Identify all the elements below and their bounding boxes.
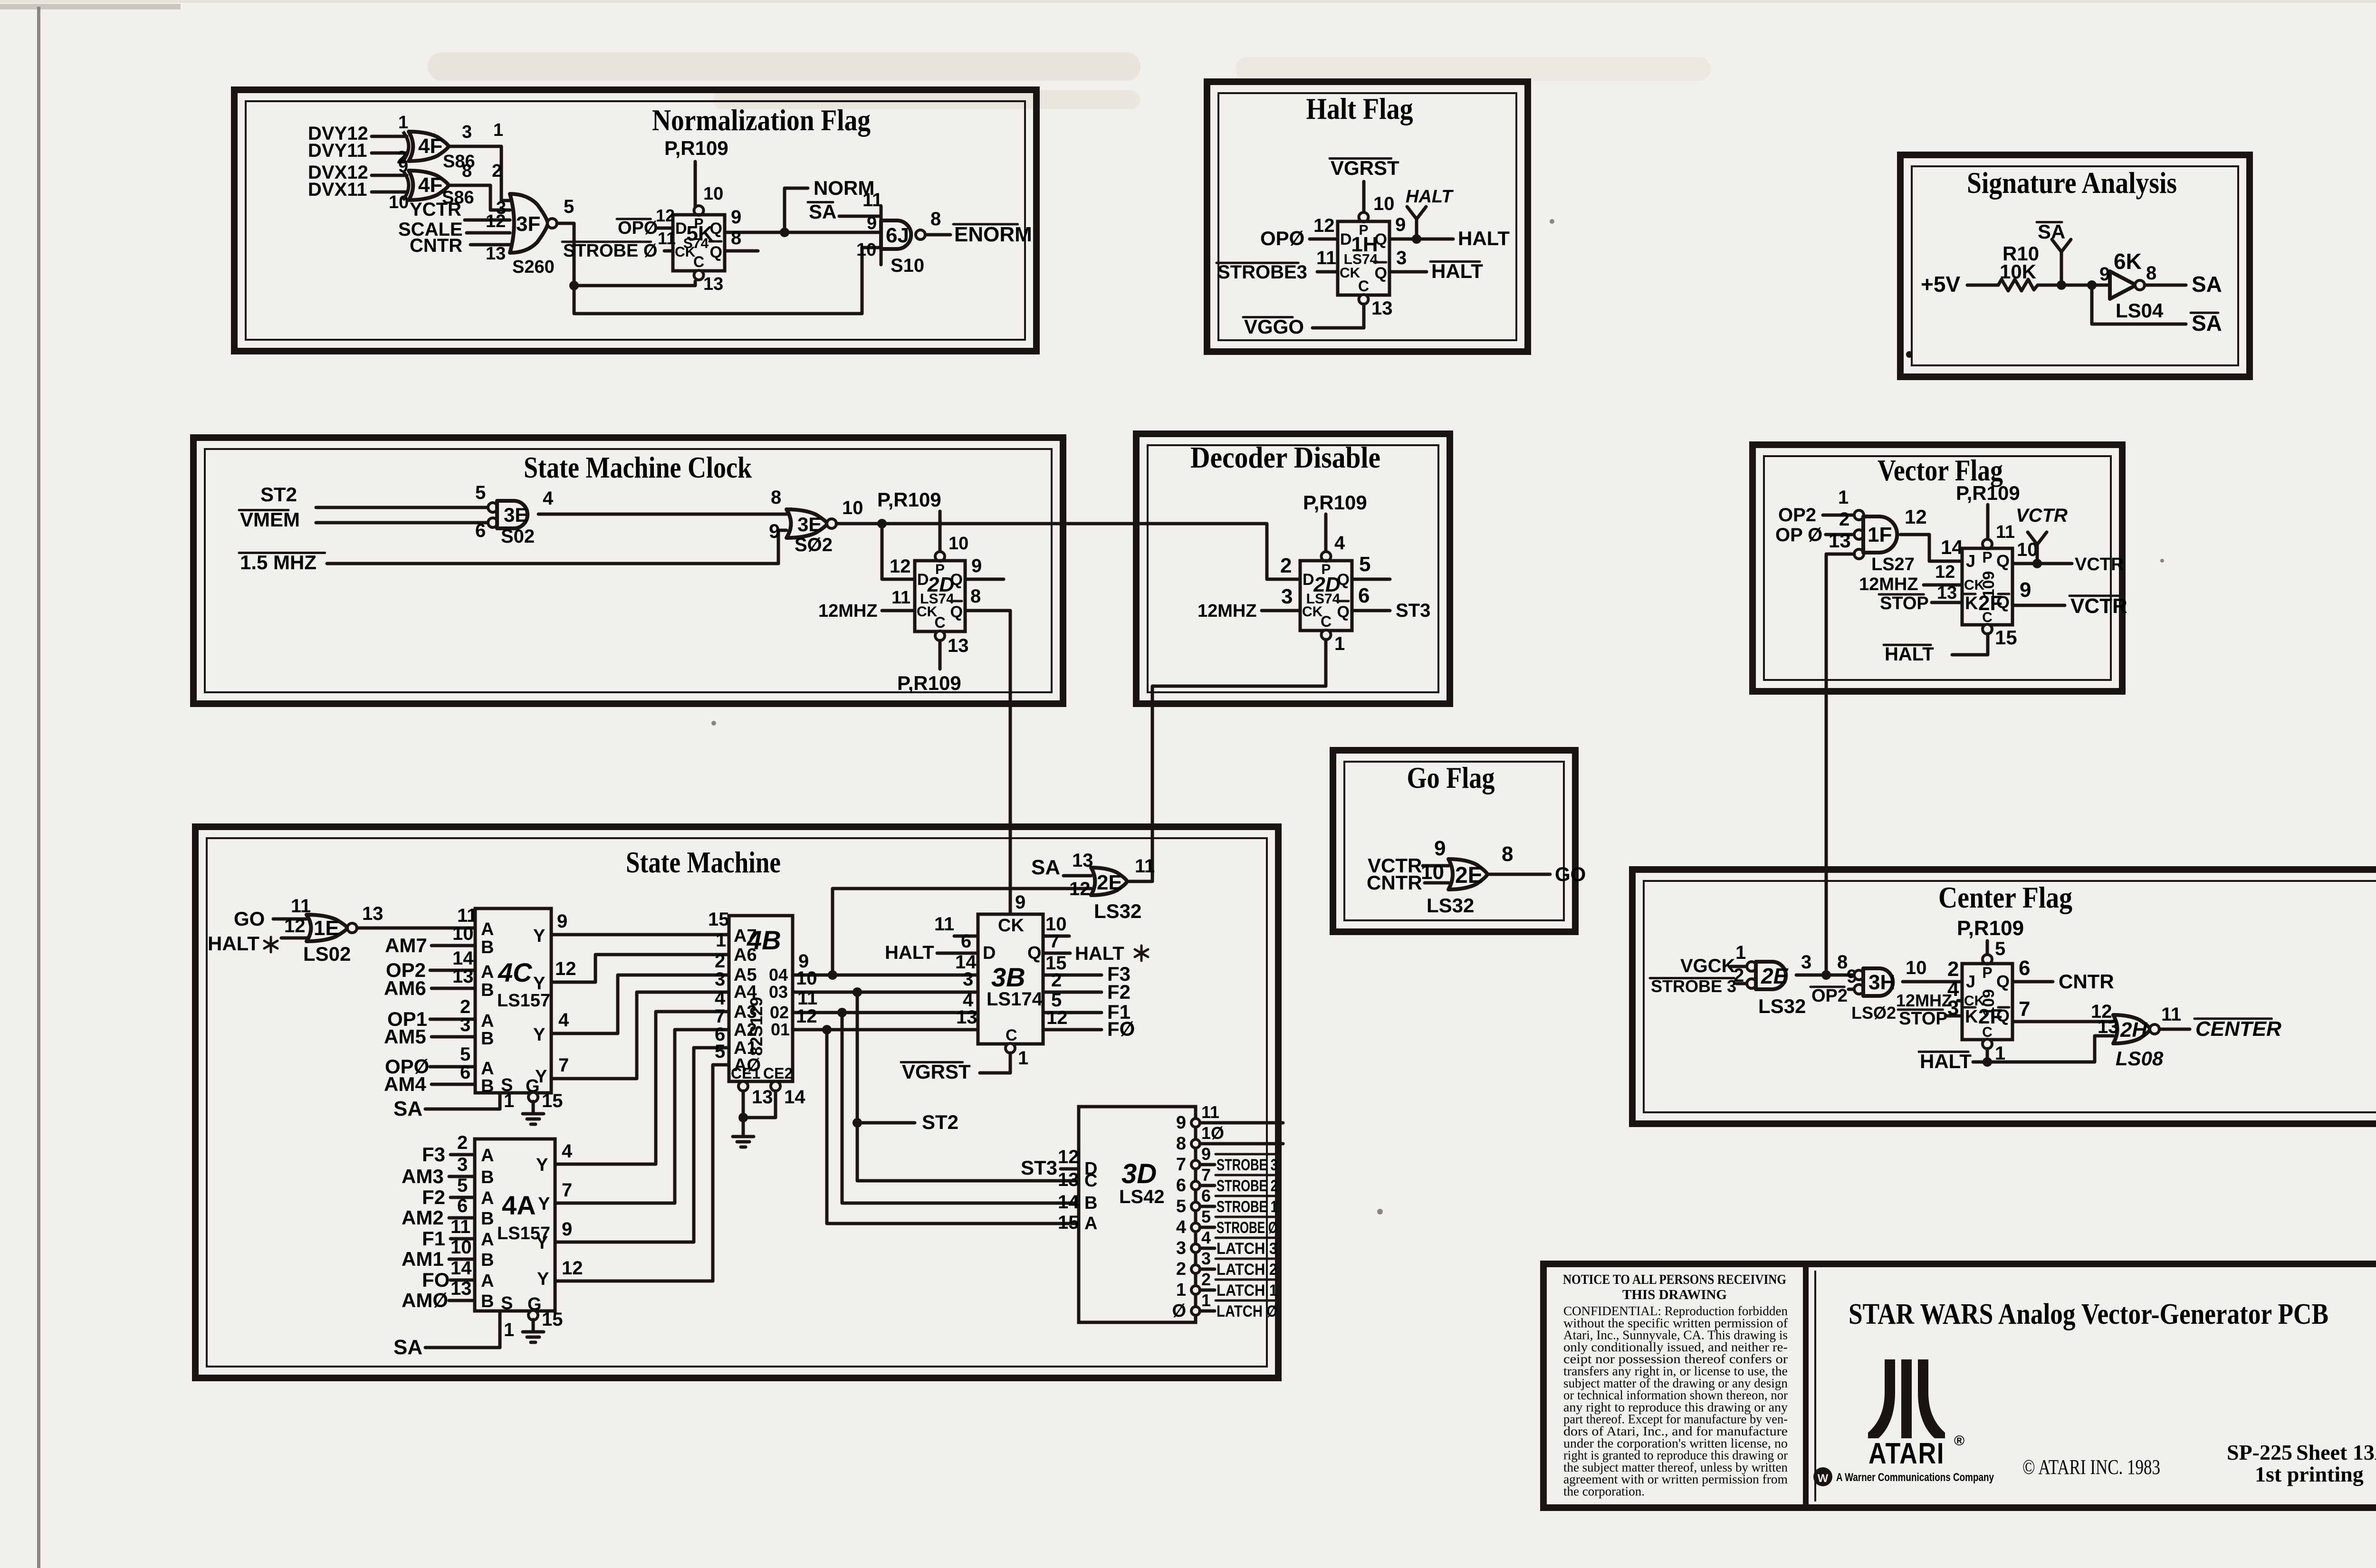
svg-text:3: 3	[457, 1154, 468, 1175]
wire CNTR to 3F pin 13	[470, 243, 510, 247]
wire 3B pin 2 to F2	[1043, 991, 1102, 994]
svg-text:4A: 4A	[502, 1190, 536, 1220]
wire 2F Q pin 10 to VCTR	[2012, 562, 2072, 565]
svg-text:HALT: HALT	[1885, 644, 1934, 665]
svg-text:7: 7	[562, 1180, 572, 1201]
svg-text:F3: F3	[422, 1143, 445, 1166]
svg-text:3: 3	[1801, 952, 1811, 973]
svg-text:12MHZ: 12MHZ	[1896, 991, 1952, 1010]
svg-text:1: 1	[504, 1319, 514, 1340]
wire 2F clear from HALT	[1986, 1049, 1989, 1062]
svg-text:12: 12	[562, 1258, 583, 1279]
wire 3B pin 5 to F1	[1043, 1011, 1102, 1014]
svg-text:1.5 MHZ: 1.5 MHZ	[240, 551, 316, 574]
wire HALT to junction	[1973, 1061, 1987, 1064]
wire 2D clear pin 1 down to State Machine 2E output	[1152, 640, 1326, 880]
State Machine section box	[195, 827, 1278, 1378]
wire VCTR to 2E pin 9	[1423, 864, 1448, 868]
svg-text:Center Flag: Center Flag	[1938, 880, 2072, 914]
wire GO to 1E pin 11	[273, 918, 307, 921]
svg-text:OPØ: OPØ	[1260, 227, 1304, 249]
stray mark	[1906, 351, 1913, 358]
svg-text:11: 11	[1996, 522, 2015, 542]
wire ST3 to 3D D pin 12	[1061, 1167, 1079, 1171]
svg-text:SA: SA	[2038, 220, 2065, 243]
svg-text:109: 109	[1980, 571, 1998, 598]
svg-text:13: 13	[1829, 529, 1851, 552]
svg-text:9: 9	[867, 213, 877, 233]
Warner logo	[1813, 1467, 1832, 1486]
wire SA to 6J pin 11	[839, 215, 881, 218]
wire junction to 5K C pin 13	[574, 281, 695, 286]
svg-text:CNTR: CNTR	[2059, 970, 2114, 993]
wire 1E out pin 13 to 4C A pin 11	[357, 927, 475, 930]
wire SCALE to 3F pin 12	[467, 231, 510, 235]
svg-text:8: 8	[731, 228, 741, 249]
svg-text:VCTR: VCTR	[2075, 555, 2124, 574]
wire F3 to 4A pin 2	[450, 1153, 475, 1157]
svg-text:2E: 2E	[1761, 964, 1789, 988]
svg-text:C: C	[693, 253, 704, 270]
svg-text:7: 7	[1176, 1155, 1186, 1175]
wire O2 junction down to 3D B pin 14	[842, 1013, 1079, 1203]
wire 3H out pin 10 to 2F J pin 2	[1903, 980, 1962, 984]
svg-text:F2: F2	[1107, 981, 1131, 1003]
wire 12MHZ to CK pin 3	[1262, 609, 1300, 612]
wire 4C Y pin 7 to 4B A4 pin 3	[551, 992, 729, 1079]
svg-text:STOP: STOP	[1899, 1009, 1948, 1029]
xor gate 4F (S86) upper	[403, 132, 409, 161]
svg-text:1: 1	[504, 1090, 514, 1111]
wire CE2 to CE1 tie	[743, 1091, 776, 1118]
wire YCTR to 3F pin 3	[465, 219, 510, 222]
svg-text:6: 6	[1201, 1186, 1211, 1205]
and gate 2H (LS08)	[2113, 1015, 2150, 1043]
svg-text:04: 04	[769, 965, 788, 985]
svg-text:2: 2	[1280, 554, 1292, 577]
svg-text:AM7: AM7	[385, 934, 427, 956]
svg-text:4: 4	[1334, 533, 1345, 554]
svg-text:State Machine Clock: State Machine Clock	[524, 450, 752, 484]
svg-text:9: 9	[2020, 578, 2031, 602]
inverter 6K (LS04)	[2110, 271, 2136, 299]
svg-text:S02: S02	[501, 526, 535, 547]
nor gate 3E (S02) second	[786, 509, 827, 538]
svg-text:3E: 3E	[797, 513, 822, 535]
svg-text:1: 1	[1334, 633, 1345, 654]
wire 3B pin 15 to F3	[1043, 974, 1102, 977]
svg-text:P,R109: P,R109	[897, 672, 961, 694]
wire F2 to 4A pin 5	[450, 1196, 475, 1199]
svg-text:P: P	[1982, 964, 1992, 981]
svg-text:1: 1	[716, 930, 726, 951]
svg-text:10: 10	[1421, 860, 1444, 884]
svg-text:C: C	[1006, 1026, 1017, 1044]
svg-text:6: 6	[457, 1195, 468, 1216]
svg-text:4F: 4F	[418, 134, 442, 158]
junction NORM tap	[780, 228, 789, 237]
wire 2E out pin 8 to GO	[1488, 873, 1550, 876]
svg-text:GO: GO	[1555, 863, 1586, 885]
svg-text:1st printing: 1st printing	[2255, 1462, 2364, 1486]
nor gate 1E (LS02)	[307, 915, 347, 941]
svg-text:6: 6	[1176, 1176, 1186, 1195]
svg-text:8: 8	[1837, 952, 1848, 973]
svg-text:3: 3	[1201, 1249, 1211, 1268]
svg-text:12: 12	[1058, 1147, 1079, 1167]
svg-text:Q: Q	[710, 243, 722, 261]
svg-text:Signature Analysis: Signature Analysis	[1967, 166, 2177, 200]
svg-text:3E: 3E	[504, 504, 528, 526]
wire CNTR to 2E pin 10	[1425, 881, 1448, 885]
SA bar signal flag	[2060, 252, 2063, 285]
svg-text:3: 3	[963, 969, 973, 990]
svg-text:®: ®	[1954, 1433, 1964, 1449]
wire STROBE3 to 1H pin 11	[1317, 270, 1338, 274]
prom 4B (82S129)	[729, 916, 793, 1081]
svg-text:7: 7	[1049, 931, 1060, 952]
svg-text:12: 12	[890, 556, 911, 577]
svg-text:1: 1	[1735, 942, 1746, 963]
wire AM1 to 4A pin 10	[449, 1258, 475, 1261]
wire 12MHZ to 2F pin 12	[1924, 583, 1962, 587]
wire 3E pin 4 to 3E pin 8	[538, 513, 786, 516]
svg-text:SP-225: SP-225	[2227, 1440, 2292, 1464]
svg-text:J: J	[1966, 551, 1975, 571]
svg-text:ST3: ST3	[1021, 1157, 1057, 1179]
svg-text:CENTER: CENTER	[2195, 1017, 2281, 1041]
register 3B (LS174)	[978, 914, 1043, 1044]
svg-text:Sheet 13A: Sheet 13A	[2296, 1440, 2376, 1464]
svg-text:OP2: OP2	[1811, 986, 1848, 1006]
svg-text:B: B	[1084, 1193, 1097, 1213]
HALT signal flag symbol	[1415, 219, 1418, 239]
svg-text:Q: Q	[1996, 551, 2010, 571]
svg-text:12: 12	[1046, 1007, 1068, 1028]
wire DVX11 to 4F pin 10	[372, 191, 407, 194]
wire SA to 4A S pin 1	[425, 1311, 500, 1348]
svg-text:J: J	[1966, 972, 1975, 991]
svg-text:AM4: AM4	[384, 1073, 426, 1095]
svg-text:S10: S10	[891, 255, 924, 276]
wire 1H Q pin 9 to HALT	[1389, 238, 1453, 241]
svg-text:DVX11: DVX11	[308, 179, 367, 200]
svg-text:7: 7	[558, 1055, 569, 1076]
svg-text:10: 10	[796, 968, 817, 989]
svg-text:8: 8	[2146, 263, 2156, 284]
junction SA flag tap	[2057, 280, 2066, 290]
flip-flop 5K (S74)	[694, 206, 704, 215]
wire 2H out pin 11 to CENTER	[2159, 1028, 2190, 1031]
wire CE1 to ground	[742, 1091, 745, 1124]
wire 12MHZ to 2D pin 11	[882, 609, 915, 612]
svg-text:CE2: CE2	[763, 1065, 793, 1082]
3B stub pin 10	[1043, 935, 1069, 938]
svg-text:12MHZ: 12MHZ	[818, 601, 878, 621]
svg-text:1Ø: 1Ø	[1201, 1123, 1224, 1143]
svg-text:Q: Q	[950, 603, 963, 621]
svg-text:11: 11	[1316, 248, 1336, 268]
svg-text:10: 10	[703, 184, 723, 204]
junction vector flag riser join	[1821, 970, 1831, 980]
svg-text:State Machine: State Machine	[626, 845, 781, 879]
svg-text:3: 3	[715, 969, 725, 990]
svg-text:AMØ: AMØ	[402, 1289, 448, 1311]
svg-text:15: 15	[708, 909, 729, 930]
svg-text:Y: Y	[533, 926, 545, 946]
Go Flag section box	[1333, 750, 1575, 932]
svg-text:S: S	[501, 1293, 513, 1313]
4C G enable bubble and pin 15	[528, 1092, 538, 1102]
wire 1F pin 13 riser down to Center Flag	[1826, 554, 1854, 975]
svg-text:5: 5	[1176, 1196, 1186, 1216]
multiplexer 4A (LS157)	[475, 1139, 555, 1311]
svg-text:3: 3	[1396, 248, 1407, 268]
svg-text:Decoder Disable: Decoder Disable	[1190, 440, 1380, 474]
multiplexer 4C (LS157)	[475, 908, 551, 1093]
nand gate 2E (LS32) center	[1747, 962, 1756, 971]
Halt Flag section box	[1207, 82, 1528, 352]
svg-text:9: 9	[1015, 892, 1025, 913]
wire +5V to R10	[1967, 284, 1998, 287]
svg-text:Q: Q	[1996, 972, 2010, 991]
svg-text:15: 15	[1058, 1212, 1079, 1233]
wire P,R109 to 2F preset pin 5	[1986, 941, 1989, 955]
svg-text:DVY11: DVY11	[308, 140, 367, 161]
svg-text:03: 03	[769, 982, 788, 1002]
svg-text:2: 2	[492, 161, 502, 181]
svg-text:11: 11	[934, 914, 954, 935]
svg-text:9: 9	[731, 207, 741, 228]
wire P,R109 to 5K preset	[694, 162, 697, 206]
svg-text:2E: 2E	[1097, 871, 1122, 894]
svg-text:LS42: LS42	[1119, 1186, 1165, 1207]
svg-text:A7: A7	[734, 926, 757, 946]
wire DVY11 to 4F pin 2	[372, 152, 407, 155]
svg-text:VCTR: VCTR	[2016, 505, 2068, 526]
svg-text:2H: 2H	[2120, 1018, 2147, 1042]
VCTR signal flag	[2036, 545, 2039, 564]
svg-text:LS174: LS174	[987, 989, 1043, 1010]
wire VGRST to 1H preset	[1362, 182, 1366, 213]
wire OP2 to 1F pin 1	[1823, 514, 1854, 517]
svg-text:13: 13	[2098, 1016, 2119, 1037]
wire ST2 to 3E pin 5	[316, 506, 489, 509]
svg-text:8: 8	[970, 586, 981, 607]
svg-text:A: A	[481, 1059, 494, 1079]
svg-text:B: B	[481, 937, 494, 957]
svg-text:A: A	[1084, 1214, 1097, 1233]
4B CE1 bubble pin 13	[738, 1081, 748, 1091]
svg-text:15: 15	[1995, 626, 2017, 649]
svg-text:5: 5	[715, 1041, 725, 1062]
wire O1 junction down to 3D A pin 15	[827, 1030, 1079, 1224]
svg-text:HALT: HALT	[208, 932, 259, 955]
wire 4F lower out pin 8 to 3F pin 2	[450, 185, 510, 210]
wire 5K Qbar pin 8 stub	[725, 249, 758, 253]
svg-text:13: 13	[956, 1007, 977, 1028]
svg-text:Q: Q	[1027, 943, 1042, 963]
svg-text:A: A	[481, 1271, 494, 1291]
svg-text:A: A	[481, 1146, 494, 1166]
svg-text:LSØ2: LSØ2	[1851, 1003, 1896, 1023]
wire bottom rail to 6J pin 10	[574, 248, 881, 314]
svg-text:01: 01	[771, 1020, 790, 1039]
svg-text:11: 11	[658, 229, 676, 248]
svg-text:ATARI: ATARI	[1868, 1437, 1945, 1470]
svg-text:3D: 3D	[1121, 1158, 1157, 1189]
wire 6J out pin 8 to ENORM	[925, 233, 950, 237]
svg-text:GO: GO	[234, 908, 265, 930]
svg-text:4: 4	[562, 1141, 573, 1162]
svg-text:OPØ: OPØ	[618, 218, 658, 238]
svg-text:9: 9	[557, 911, 567, 932]
junction feedback tap	[2087, 280, 2097, 290]
svg-text:10K: 10K	[2000, 260, 2036, 283]
svg-text:10: 10	[948, 534, 968, 554]
nand gate 1F (LS27)	[1854, 510, 1864, 520]
svg-text:ST2: ST2	[922, 1111, 958, 1133]
svg-text:SA: SA	[1031, 856, 1060, 879]
svg-text:11: 11	[1201, 1102, 1219, 1122]
svg-text:D: D	[1340, 230, 1352, 249]
svg-text:+5V: +5V	[1921, 272, 1960, 296]
junction O1 riser	[822, 1025, 832, 1034]
wire STOP to 2F K pin 3	[1945, 1014, 1962, 1018]
wire STOP to 2F pin 13	[1932, 601, 1962, 604]
svg-text:12: 12	[1905, 506, 1927, 528]
svg-text:AM5: AM5	[384, 1025, 426, 1048]
svg-text:THIS DRAWING: THIS DRAWING	[1622, 1287, 1727, 1302]
svg-text:Y: Y	[536, 1155, 548, 1175]
wire 2F Qbar pin 7 to 2H pin 12	[2012, 1020, 2113, 1023]
svg-text:ST2: ST2	[260, 483, 297, 506]
4B CE2 bubble pin 14	[771, 1081, 780, 1091]
svg-text:B: B	[481, 1167, 494, 1187]
svg-text:4: 4	[558, 1010, 569, 1031]
svg-text:S260: S260	[512, 257, 555, 277]
svg-text:OP2: OP2	[1778, 505, 1816, 526]
svg-text:1E: 1E	[314, 917, 339, 940]
svg-text:B: B	[481, 1076, 494, 1096]
svg-text:LATCH Ø: LATCH Ø	[1217, 1302, 1277, 1320]
svg-text:3B: 3B	[991, 962, 1025, 992]
svg-text:Y: Y	[533, 1025, 545, 1045]
wire O3 junction down to 3D C pin 13	[857, 992, 1079, 1181]
svg-text:9: 9	[2099, 264, 2110, 285]
wire 3B clear from VGRST	[980, 1053, 1010, 1073]
svg-text:C: C	[1321, 613, 1332, 630]
wire 1H clear to VGGO	[1313, 304, 1364, 328]
svg-text:12: 12	[1069, 879, 1091, 899]
svg-text:P,R109: P,R109	[1957, 917, 2024, 940]
svg-text:AM2: AM2	[402, 1206, 444, 1229]
svg-text:9: 9	[1176, 1113, 1186, 1133]
wire SA to 2E pin 13	[1063, 874, 1091, 878]
xor gate 4F (S86) lower	[403, 171, 409, 200]
svg-text:CNTR: CNTR	[1367, 871, 1422, 894]
scan smudges	[428, 52, 1711, 109]
svg-text:SA: SA	[2192, 272, 2222, 296]
svg-text:the corporation.: the corporation.	[1563, 1484, 1645, 1499]
wire 2D Q pin 5 stub	[1352, 578, 1390, 581]
wire VGCK to 2E pin 1	[1731, 965, 1747, 968]
svg-text:STROBE 3: STROBE 3	[1651, 976, 1736, 996]
wire STROBE3 to 2E pin 2	[1736, 982, 1747, 985]
svg-text:15: 15	[542, 1090, 563, 1111]
svg-text:D: D	[675, 220, 687, 238]
svg-text:© ATARI INC. 1983: © ATARI INC. 1983	[2022, 1455, 2160, 1479]
junction O2 riser	[837, 1008, 847, 1017]
svg-text:C: C	[934, 614, 945, 631]
svg-text:K: K	[1965, 593, 1978, 613]
svg-text:VGCK: VGCK	[1680, 956, 1735, 976]
svg-text:A Warner Communications Compan: A Warner Communications Company	[1836, 1471, 1994, 1484]
svg-text:2: 2	[457, 1132, 468, 1153]
wire 4F upper out pin 3 to 3F pin 1	[450, 146, 510, 201]
wire SA to 4C S pin 1	[425, 1093, 500, 1109]
wire OP0 to 4C pin 5	[430, 1065, 475, 1069]
svg-text:14: 14	[784, 1087, 805, 1108]
wire 4C Y pin 9 to 4B A7 pin 15	[551, 933, 729, 937]
wire 4B O4 pin 9 to 3B pin 14	[793, 974, 978, 977]
svg-text:VGRST: VGRST	[902, 1061, 971, 1083]
wire 2E out pin 11 up to Decoder Disable clear	[1129, 827, 1152, 881]
svg-text:VCTR: VCTR	[2070, 594, 2127, 618]
svg-text:3: 3	[1176, 1238, 1186, 1258]
wire 12MHZ to 2F CK pin 4	[1958, 999, 1962, 1003]
wire F0 to 4A pin 14	[450, 1279, 475, 1282]
svg-text:NOTICE TO ALL PERSONS RECEIVIN: NOTICE TO ALL PERSONS RECEIVING	[1563, 1272, 1786, 1287]
svg-text:13: 13	[452, 966, 474, 987]
svg-text:14: 14	[1941, 536, 1963, 558]
svg-text:13: 13	[703, 274, 723, 294]
svg-text:P,R109: P,R109	[1303, 491, 1367, 514]
svg-text:8: 8	[1176, 1134, 1186, 1154]
wire OP0 to 1F pin 2	[1826, 533, 1854, 536]
wire OP1 to 4C pin 2	[430, 1018, 475, 1021]
svg-text:P,R109: P,R109	[664, 137, 728, 159]
svg-text:SA: SA	[393, 1097, 422, 1120]
svg-text:5: 5	[475, 482, 486, 503]
nand gate 3H (LS02)	[1854, 970, 1864, 980]
svg-text:A4: A4	[734, 982, 757, 1002]
svg-text:CE1: CE1	[731, 1065, 760, 1082]
wire 4C Y pin 4 to 4B A5 pin 2	[551, 975, 729, 1033]
svg-text:Y: Y	[536, 1233, 548, 1253]
svg-text:9: 9	[1434, 837, 1446, 860]
svg-text:CK: CK	[1302, 604, 1323, 620]
svg-text:12: 12	[656, 206, 675, 225]
svg-text:STROBE Ø: STROBE Ø	[563, 241, 657, 261]
svg-text:F1: F1	[422, 1227, 445, 1250]
svg-text:10: 10	[842, 497, 863, 518]
svg-text:D: D	[917, 571, 929, 589]
svg-text:3: 3	[1281, 585, 1293, 608]
svg-text:12MHZ: 12MHZ	[1198, 601, 1257, 621]
Atari fuji logo	[1868, 1359, 1945, 1438]
wire 6K out to SA	[2145, 284, 2186, 287]
svg-text:1: 1	[1176, 1280, 1186, 1300]
svg-text:12: 12	[796, 1006, 817, 1027]
Center Flag section box	[1632, 870, 2376, 1124]
svg-text:4: 4	[1176, 1217, 1186, 1237]
wire HALT* to 1E pin 12	[281, 937, 307, 940]
jk flip-flop 2F (109) vector	[1983, 539, 1992, 549]
svg-text:D: D	[1303, 571, 1314, 589]
svg-text:Halt Flag: Halt Flag	[1306, 92, 1413, 125]
svg-text:13: 13	[1937, 583, 1957, 603]
